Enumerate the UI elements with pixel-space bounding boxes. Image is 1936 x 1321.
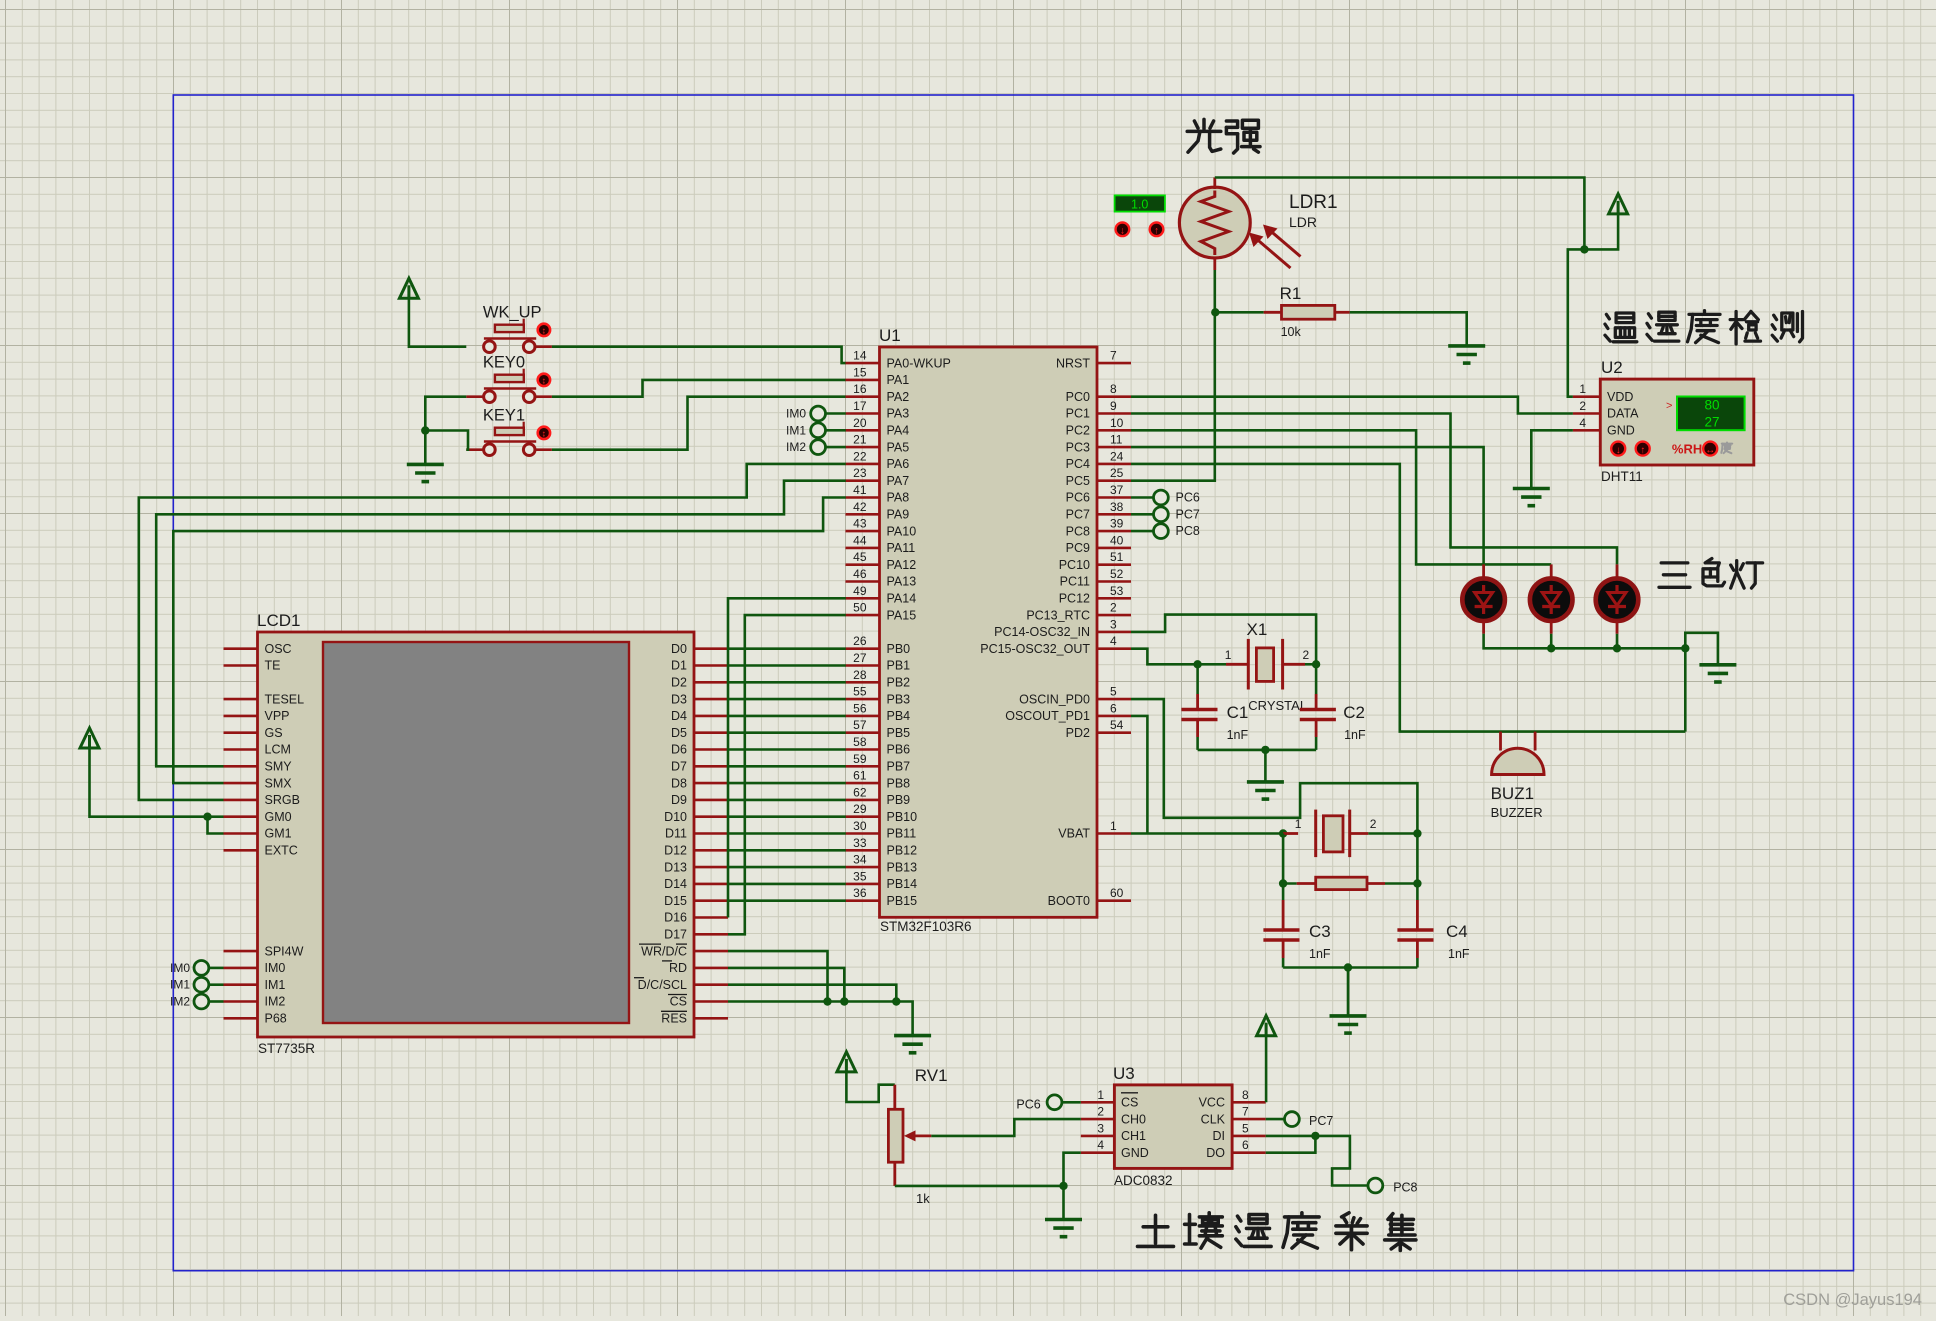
U2 pin 2 DATA: [1573, 399, 1639, 421]
junction X1 pin1 node: [1193, 660, 1201, 668]
wire LCD D1 to U1 PB1: [728, 664, 846, 667]
wire LCD D8 to U1 PB8: [728, 782, 846, 785]
LCD1 pin EXTC: [224, 844, 298, 858]
LCD1 pin SMX: [224, 776, 293, 790]
U1 pin 60 BOOT0: [1048, 886, 1131, 908]
power flag for RV1: [837, 1052, 895, 1102]
microcontroller U1 STM32F103R6 body: [879, 326, 1097, 934]
crystal X1: [1198, 620, 1317, 713]
svg-text:2: 2: [1110, 601, 1117, 615]
svg-text:56: 56: [853, 701, 867, 715]
svg-text:1.0: 1.0: [1131, 198, 1148, 212]
U1 pin 62 PB9: [846, 785, 911, 807]
wire LCD D15 to U1 PB15: [728, 899, 846, 902]
svg-text:↑: ↑: [1640, 445, 1645, 456]
LCD1 pin D13: [664, 860, 728, 874]
svg-text:PB15: PB15: [887, 894, 918, 908]
junction resistor right: [1413, 879, 1421, 887]
svg-text:PC6: PC6: [1066, 491, 1090, 505]
title guangqiang (light intensity): [1187, 119, 1260, 153]
LCD1 pin D10: [664, 810, 728, 824]
svg-text:PB3: PB3: [887, 692, 911, 706]
LCD1 pin OSC: [224, 642, 292, 656]
wire U1 PC1 to LED D3: [1131, 414, 1617, 565]
svg-text:D7: D7: [671, 760, 687, 774]
svg-text:24: 24: [1110, 449, 1124, 463]
terminal PC6 at U3: [1016, 1095, 1080, 1112]
svg-text:45: 45: [853, 550, 867, 564]
LCD1 pin SRGB: [224, 793, 300, 807]
LCD1 pin D2: [671, 676, 728, 690]
svg-text:D17: D17: [664, 928, 687, 942]
U1 pin 26 PB0: [846, 634, 911, 656]
LCD1 pin D14: [664, 877, 728, 891]
wire KEY1 to U1 PA2: [535, 448, 552, 451]
svg-text:DATA: DATA: [1607, 407, 1639, 421]
U2 pin 4 GND: [1573, 416, 1635, 438]
U1 pin 49 PA14: [846, 584, 917, 606]
svg-text:6: 6: [1110, 701, 1117, 715]
svg-text:VCC: VCC: [1199, 1096, 1225, 1110]
junction SCL rail: [892, 997, 900, 1005]
svg-text:27: 27: [1704, 415, 1719, 430]
U1 pin 53 PC12: [1059, 584, 1131, 606]
terminal IM1 at LCD: [170, 977, 224, 992]
wire LCD D3 to U1 PB3: [728, 698, 846, 701]
svg-text:PB13: PB13: [887, 860, 918, 874]
LCD1 pin VPP: [224, 709, 290, 723]
junction LED2 rail: [1547, 644, 1555, 652]
svg-text:D8: D8: [671, 776, 687, 790]
wire U2 GND to ground: [1531, 430, 1573, 488]
svg-text:43: 43: [853, 517, 867, 531]
svg-text:6: 6: [1242, 1138, 1249, 1152]
svg-text:2: 2: [1579, 399, 1586, 413]
LCD1 pin IM0: [224, 961, 286, 975]
svg-text:↕: ↕: [542, 326, 547, 336]
ground for LEDs: [1699, 663, 1736, 667]
power flag for WK_UP: [399, 278, 466, 346]
ground for U2: [1513, 487, 1550, 491]
terminal IM0 at U1: [786, 406, 846, 421]
svg-text:EXTC: EXTC: [265, 844, 298, 858]
svg-text:PB2: PB2: [887, 676, 911, 690]
potentiometer RV1 1k: [888, 1066, 947, 1206]
wire to LCD GM1: [208, 817, 224, 834]
svg-text:SPI4W: SPI4W: [265, 944, 304, 958]
svg-text:LDR1: LDR1: [1289, 192, 1338, 213]
U1 pin 35 PB14: [846, 869, 918, 891]
LCD1 pin D1: [671, 659, 728, 673]
svg-text:C2: C2: [1343, 703, 1365, 722]
wire LCD WR/D/C down: [728, 951, 828, 1001]
U1 pin 1 VBAT: [1058, 819, 1131, 841]
svg-text:D2: D2: [671, 676, 687, 690]
svg-text:PA8: PA8: [887, 491, 910, 505]
svg-text:>: >: [1666, 400, 1672, 412]
U1 pin 30 PB11: [846, 819, 917, 841]
svg-text:35: 35: [853, 869, 867, 883]
wire U1 PC0 to U2 DATA: [1131, 397, 1573, 414]
svg-text:VPP: VPP: [265, 709, 290, 723]
svg-text:DO: DO: [1206, 1146, 1225, 1160]
svg-text:PA15: PA15: [887, 608, 917, 622]
U1 pin 41 PA8: [846, 483, 910, 505]
svg-text:PA10: PA10: [887, 524, 917, 538]
LCD1 pin D7: [671, 760, 728, 774]
svg-text:26: 26: [853, 634, 867, 648]
svg-text:7: 7: [1110, 349, 1117, 363]
power flag for LCD GM0/GM1: [80, 728, 208, 817]
svg-text:PB9: PB9: [887, 793, 911, 807]
wire rail to ground: [1347, 968, 1350, 1016]
LCD1 pin IM2: [224, 995, 286, 1009]
title turang shidu caiji (soil moisture): [1138, 1213, 1416, 1251]
svg-text:30: 30: [853, 819, 867, 833]
svg-text:CSDN @Jayus194: CSDN @Jayus194: [1783, 1291, 1922, 1309]
U1 pin 20 PA4: [846, 416, 910, 438]
svg-text:60: 60: [1110, 886, 1124, 900]
svg-text:PC4: PC4: [1066, 457, 1090, 471]
svg-text:17: 17: [853, 399, 867, 413]
svg-text:TESEL: TESEL: [265, 692, 305, 706]
svg-text:D0: D0: [671, 642, 687, 656]
LCD1 pin SMY: [224, 760, 293, 774]
U1 pin 46 PA13: [846, 567, 917, 589]
U1 pin 15 PA1: [846, 365, 910, 387]
svg-text:11: 11: [1110, 433, 1123, 447]
svg-text:PB7: PB7: [887, 760, 911, 774]
svg-text:36: 36: [853, 886, 867, 900]
svg-text:RV1: RV1: [915, 1066, 948, 1085]
push button KEY0: [483, 354, 550, 403]
svg-text:50: 50: [853, 601, 867, 615]
svg-text:PB14: PB14: [887, 877, 918, 891]
wire U1 PC3 to LED D1: [1131, 447, 1484, 564]
svg-text:PC10: PC10: [1059, 558, 1090, 572]
svg-text:49: 49: [853, 584, 867, 598]
feedback resistor: [1283, 834, 1417, 890]
svg-text:PA11: PA11: [887, 541, 916, 555]
wire U3 GND down: [1064, 1153, 1081, 1186]
U1 pin 50 PA15: [846, 601, 917, 623]
svg-text:4: 4: [1579, 416, 1586, 430]
svg-text:PC15-OSC32_OUT: PC15-OSC32_OUT: [980, 642, 1090, 656]
svg-text:PA12: PA12: [887, 558, 917, 572]
LDR1 pin stubs: [1213, 178, 1216, 190]
svg-text:1nF: 1nF: [1227, 728, 1249, 742]
LDR actuator button down: [1116, 223, 1130, 237]
svg-text:28: 28: [853, 668, 867, 682]
LDR actuator display 1.0: [1115, 195, 1165, 211]
svg-text:BOOT0: BOOT0: [1048, 894, 1090, 908]
svg-text:R1: R1: [1280, 284, 1302, 303]
svg-text:IM0: IM0: [170, 961, 190, 975]
buzzer BUZ1: [1491, 732, 1544, 820]
svg-text:OSC: OSC: [265, 642, 292, 656]
U1 pin 8 PC0: [1066, 382, 1131, 404]
LCD1 pin RES: [661, 1012, 728, 1026]
U1 pin 58 PB6: [846, 735, 911, 757]
wire to LCD GM0: [208, 815, 224, 818]
resistor R1 10k: [1215, 284, 1349, 339]
junction crystal2 pin2: [1413, 829, 1421, 837]
svg-text:PA4: PA4: [887, 424, 910, 438]
svg-text:CH1: CH1: [1121, 1129, 1146, 1143]
U3 pin 8 VCC: [1199, 1088, 1266, 1110]
U3 pin 2 CH0: [1081, 1105, 1146, 1127]
U1 pin 2 PC13_RTC: [1026, 601, 1131, 623]
svg-text:ST7735R: ST7735R: [258, 1041, 315, 1056]
U1 pin 11 PC3: [1066, 433, 1131, 455]
svg-text:2: 2: [1097, 1105, 1104, 1119]
U1 pin 21 PA5: [846, 433, 910, 455]
terminal PC7 at U1: [1131, 507, 1200, 522]
wire LCD D12 to U1 PB12: [728, 849, 846, 852]
svg-text:PC7: PC7: [1176, 507, 1200, 521]
U1 pin 55 PB3: [846, 685, 911, 707]
svg-text:22: 22: [853, 449, 867, 463]
svg-text:PA7: PA7: [887, 474, 910, 488]
U1 pin 40 PC9: [1066, 533, 1131, 555]
junction RD rail: [840, 997, 848, 1005]
LCD1 pin GM0: [224, 810, 292, 824]
terminal PC6 at U1: [1131, 490, 1200, 505]
svg-text:C4: C4: [1446, 922, 1468, 941]
svg-text:PA9: PA9: [887, 508, 910, 522]
U1 pin 14 PA0-WKUP: [846, 349, 951, 371]
U1 pin 10 PC2: [1066, 416, 1131, 438]
svg-text:STM32F103R6: STM32F103R6: [880, 919, 972, 934]
svg-text:↕: ↕: [542, 429, 547, 439]
junction VDD rail: [1580, 245, 1588, 253]
svg-text:RD: RD: [669, 961, 687, 975]
power flag near DHT11: [1584, 194, 1627, 250]
push button KEY1: [483, 407, 550, 456]
svg-text:39: 39: [1110, 517, 1124, 531]
ground below CS rail: [894, 1034, 931, 1038]
svg-text:10: 10: [1110, 416, 1124, 430]
capacitor C1 1nF: [1181, 664, 1248, 750]
LCD1 pin D8: [671, 776, 728, 790]
U1 pin 17 PA3: [846, 399, 910, 421]
svg-text:U1: U1: [879, 326, 901, 345]
wire KEY0 to U1 PA1: [535, 395, 552, 398]
svg-text:D4: D4: [671, 709, 687, 723]
LCD1 pin RD: [669, 961, 728, 975]
ground for C3 C4: [1330, 1014, 1367, 1018]
svg-text:16: 16: [853, 382, 867, 396]
svg-text:52: 52: [1110, 567, 1124, 581]
sensor U2 DHT11 body: [1600, 358, 1754, 484]
LED D2: [1530, 564, 1573, 633]
svg-text:PC7: PC7: [1309, 1114, 1333, 1128]
wire RV1 bottom to ground rail: [895, 1185, 1064, 1188]
PC6-PC8 terminal chain link: [1160, 491, 1163, 539]
ground for RV1 U3: [1045, 1218, 1082, 1222]
LDR1 photoresistor: [1179, 187, 1337, 268]
svg-text:GND: GND: [1121, 1146, 1149, 1160]
IM terminal chain link LCD side: [200, 961, 203, 1009]
LCD1 pin D17: [664, 928, 728, 942]
U1 pin 44 PA11: [846, 533, 916, 555]
capacitor C4 1nF: [1397, 884, 1470, 968]
svg-text:PA6: PA6: [887, 457, 910, 471]
svg-text:D3: D3: [671, 692, 687, 706]
svg-text:OSCOUT_PD1: OSCOUT_PD1: [1005, 709, 1090, 723]
svg-text:KEY1: KEY1: [483, 407, 525, 425]
svg-text:PC1: PC1: [1066, 407, 1090, 421]
svg-text:D11: D11: [665, 827, 687, 841]
svg-text:PD2: PD2: [1066, 726, 1090, 740]
wire U1 OSCOUT_PD1 down to VBAT rail: [1131, 716, 1147, 834]
svg-text:DHT11: DHT11: [1601, 469, 1643, 484]
svg-text:PC7: PC7: [1066, 508, 1090, 522]
U1 pin 23 PA7: [846, 466, 910, 488]
U1 pin 6 OSCOUT_PD1: [1005, 701, 1131, 723]
svg-text:2: 2: [1303, 648, 1310, 662]
svg-text:RES: RES: [661, 1012, 687, 1026]
svg-text:X1: X1: [1247, 620, 1268, 639]
svg-text:33: 33: [853, 836, 867, 850]
U1 pin 59 PB7: [846, 752, 911, 774]
svg-text:59: 59: [853, 752, 867, 766]
LCD1 pin GM1: [224, 827, 292, 841]
svg-text:PA2: PA2: [887, 390, 910, 404]
svg-text:40: 40: [1110, 533, 1124, 547]
LCD1 ST7735R body: [257, 611, 694, 1056]
wire LCD D11 to U1 PB11: [728, 832, 846, 835]
wire LCD D/C/SCL down: [728, 985, 896, 1002]
svg-text:↑: ↑: [1154, 225, 1159, 236]
svg-text:PB0: PB0: [887, 642, 911, 656]
svg-text:↕: ↕: [542, 376, 547, 386]
svg-text:15: 15: [853, 365, 867, 379]
U2 display: [1666, 397, 1745, 431]
svg-text:NRST: NRST: [1056, 356, 1090, 370]
svg-text:D16: D16: [664, 911, 687, 925]
LCD1 pin D4: [671, 709, 728, 723]
LCD1 pin IM1: [224, 978, 286, 992]
U1 pin 25 PC5: [1066, 466, 1131, 488]
U1 pin 24 PC4: [1066, 449, 1131, 471]
LCD1 pin overlines: [634, 944, 687, 1011]
svg-text:LCD1: LCD1: [257, 611, 300, 630]
svg-text:WK_UP: WK_UP: [483, 304, 542, 322]
LCD1 pin D11: [665, 827, 728, 841]
wire LCD CS to ground: [728, 1002, 913, 1036]
wire LED cathode rail: [1484, 634, 1686, 649]
svg-text:5: 5: [1110, 685, 1117, 699]
U1 pin 42 PA9: [846, 500, 910, 522]
svg-text:14: 14: [853, 349, 867, 363]
svg-text:25: 25: [1110, 466, 1124, 480]
wire LCD RD down: [728, 968, 844, 1002]
svg-text:1: 1: [1579, 382, 1586, 396]
terminal IM2 at LCD: [170, 994, 224, 1009]
wire LCD D6 to U1 PB6: [728, 748, 846, 751]
svg-text:VDD: VDD: [1607, 390, 1633, 404]
svg-text:↓: ↓: [1616, 445, 1621, 456]
LDR actuator button up: [1150, 223, 1164, 237]
capacitor C3 1nF: [1263, 884, 1331, 968]
svg-text:1: 1: [1295, 817, 1302, 831]
svg-text:3: 3: [1097, 1121, 1104, 1135]
svg-text:PA3: PA3: [887, 407, 910, 421]
wire C1 C2 ground rail: [1198, 749, 1317, 752]
svg-text:PC13_RTC: PC13_RTC: [1026, 608, 1090, 622]
wire U1 OSCIN_PD0 loop to crystal2 pin2: [1131, 699, 1417, 833]
svg-text:ADC0832: ADC0832: [1114, 1173, 1173, 1188]
junction RV1 ground rail: [1059, 1182, 1067, 1190]
svg-text:8: 8: [1242, 1088, 1249, 1102]
svg-text:54: 54: [1110, 718, 1124, 732]
terminal PC7 at U3 CLK: [1266, 1112, 1334, 1128]
terminal IM0 at LCD: [170, 961, 224, 976]
svg-text:62: 62: [853, 785, 867, 799]
svg-text:PC14-OSC32_IN: PC14-OSC32_IN: [994, 625, 1090, 639]
U3 pin 1 CS: [1081, 1088, 1139, 1110]
svg-text:34: 34: [853, 853, 867, 867]
U1 pin 43 PA10: [846, 517, 917, 539]
LCD1 pin LCM: [224, 743, 291, 757]
wire C3 C4 rail: [1283, 966, 1417, 969]
terminal IM1 at U1: [786, 423, 846, 438]
svg-text:U2: U2: [1601, 358, 1623, 377]
wire LCD D5 to U1 PB5: [728, 731, 846, 734]
title sansedeng (tri-color LED): [1659, 559, 1763, 589]
wire U1 VBAT to crystal2: [1131, 832, 1283, 835]
svg-text:%RH: %RH: [1672, 442, 1702, 457]
svg-text:PC0: PC0: [1066, 390, 1090, 404]
ground for R1: [1448, 344, 1485, 348]
svg-text:CH0: CH0: [1121, 1112, 1146, 1126]
svg-text:38: 38: [1110, 500, 1124, 514]
svg-text:SRGB: SRGB: [265, 793, 300, 807]
U1 pin 37 PC6: [1066, 483, 1131, 505]
U1 pin 4 PC15-OSC32_OUT: [980, 634, 1131, 656]
svg-text:PA5: PA5: [887, 440, 910, 454]
svg-text:5: 5: [1242, 1121, 1249, 1135]
LCD1 screen area: [323, 642, 629, 1023]
svg-text:C1: C1: [1227, 703, 1249, 722]
junction resistor left: [1279, 879, 1287, 887]
U3 pin 5 DI: [1213, 1121, 1266, 1143]
svg-text:PA14: PA14: [887, 592, 917, 606]
svg-text:1nF: 1nF: [1344, 728, 1366, 742]
junction C rail: [1261, 746, 1269, 754]
junction DI DO: [1311, 1132, 1319, 1140]
svg-text:IM1: IM1: [265, 978, 286, 992]
svg-text:KEY0: KEY0: [483, 354, 525, 372]
svg-text:PB10: PB10: [887, 810, 918, 824]
svg-text:IM1: IM1: [170, 978, 190, 992]
svg-text:D9: D9: [671, 793, 687, 807]
svg-text:U3: U3: [1113, 1064, 1135, 1083]
U3 pin 6 DO: [1206, 1138, 1265, 1160]
wire LCD D7 to U1 PB7: [728, 765, 846, 768]
svg-text:D13: D13: [664, 860, 687, 874]
svg-text:4: 4: [1097, 1138, 1104, 1152]
svg-text:20: 20: [853, 416, 867, 430]
svg-text:PB8: PB8: [887, 776, 911, 790]
LCD1 pin D/C/SCL: [638, 978, 728, 992]
LCD1 pin D5: [671, 726, 728, 740]
U2 buttons: [1611, 442, 1717, 457]
wire U1 PC15 to X1 pin1: [1131, 649, 1198, 665]
title wenshidu jiance (temp humidity detection): [1605, 311, 1803, 344]
svg-text:PC6: PC6: [1176, 491, 1200, 505]
